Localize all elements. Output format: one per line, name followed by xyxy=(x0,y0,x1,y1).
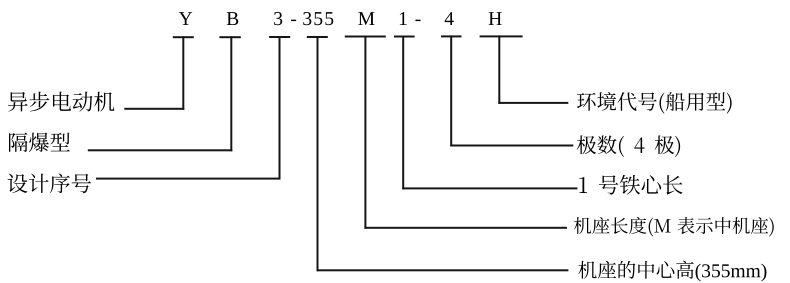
code char B xyxy=(227,12,239,25)
leader line from 3 to left label xyxy=(279,36,281,180)
tick bar under M xyxy=(345,36,386,38)
code dash between 3 and 355 xyxy=(291,20,296,21)
code dash between 1 and 4 xyxy=(415,20,420,21)
label text: asynchronous motor xyxy=(8,92,114,112)
label text: flameproof type xyxy=(9,133,70,152)
leader line from H to right label xyxy=(498,35,500,104)
code char M xyxy=(358,12,374,25)
tick bar under 1- xyxy=(394,36,415,38)
label text: frame length (M means medium frame) xyxy=(574,217,774,237)
leader line from M to right label xyxy=(364,36,366,229)
leader line from 355 to right label xyxy=(317,36,319,271)
tick bar under B xyxy=(219,36,240,38)
label text: frame center height xyxy=(578,261,693,279)
code number 355 xyxy=(303,12,333,25)
code char 3 xyxy=(274,12,282,25)
leader line from 1 to right label xyxy=(402,36,404,190)
label text: design serial number xyxy=(8,173,91,193)
label text: environment code (marine type) xyxy=(577,92,732,114)
code char H xyxy=(489,12,502,25)
code char 4 xyxy=(445,12,454,25)
code char 1 xyxy=(400,12,407,25)
tick bar under 3 xyxy=(269,36,290,38)
label text: number of poles (4 poles) xyxy=(577,135,680,157)
tick bar under 4 xyxy=(441,35,462,37)
label text: No.1 core length xyxy=(579,175,682,195)
code char Y xyxy=(179,12,192,25)
tick bar under Y xyxy=(173,36,194,38)
leader line from Y to left label xyxy=(182,36,184,110)
tick bar under H xyxy=(480,35,523,37)
leader line from B to left label xyxy=(230,36,232,151)
leader line from 4 to right label xyxy=(450,35,452,146)
tick bar under 355 xyxy=(307,36,328,38)
label text: (355mm) value xyxy=(696,264,767,282)
